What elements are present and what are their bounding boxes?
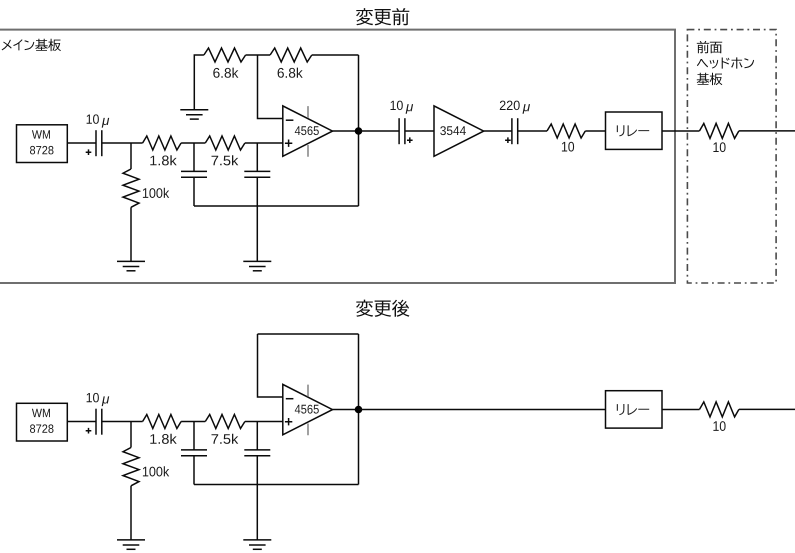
resistor R3 7.5k (205, 136, 245, 150)
op-amp U5 4565 (283, 384, 333, 435)
feedback drop wire (top rail to output node to lower rail) (358, 55, 360, 206)
DAC IC U1 WM8728 box (17, 125, 68, 163)
output node dot (355, 127, 363, 135)
value label 7.5k for R3 (212, 155, 239, 165)
DAC IC U4 WM8728 box (17, 403, 68, 441)
resistor R10 7.5k (205, 415, 245, 429)
relay K2 box (リレー) (606, 391, 663, 428)
title: 変更前 (before change) (356, 8, 409, 25)
wire node B down to C2 (193, 143, 195, 171)
buffer U3 3544 (434, 106, 484, 156)
op-amp U2 4565 (283, 106, 333, 157)
wire R4 to node D to R5 (246, 54, 271, 56)
value label 100k for R8 (143, 466, 169, 476)
feedback drop wire (loop to output node to lower rail) (358, 334, 360, 485)
wire R6 to relay K1 (585, 130, 605, 132)
wire C6 to node E to R9 (102, 421, 143, 423)
ground below R4 riser (180, 110, 208, 119)
resistor R6 10 (547, 124, 585, 138)
wire C2 bottom to feedback rail (193, 177, 195, 206)
wire R1 to node B to R3 (181, 142, 205, 144)
wire R2 bottom to ground (130, 207, 132, 261)
feedback rail wire (C7 to output node) (194, 484, 359, 486)
wire R11 to right edge (739, 408, 795, 410)
wire R9 to node F to R10 (181, 421, 205, 423)
capacitor C6 10u (polarized) (86, 409, 102, 435)
value label 10u for C6 (87, 393, 110, 406)
capacitor C8 (filter) (244, 450, 270, 456)
label: 基板 (board) (697, 73, 723, 85)
ground below C8 (243, 540, 271, 549)
value label 7.5k for R10 (212, 434, 239, 444)
label: ヘッドホン (headphone) (697, 57, 754, 68)
wire R7 to right edge (739, 130, 795, 132)
wire U5 - input to feedback loop (258, 334, 283, 397)
value label 10 for R6 (562, 142, 574, 152)
wire R5 to feedback drop (312, 54, 359, 56)
value label 6.8k for R5 (278, 68, 303, 78)
capacitor C1 10u (polarized) (86, 130, 102, 156)
wire node to relay K2 (359, 409, 606, 411)
capacitor C4 10u (polarized) (399, 118, 413, 144)
wire ground riser to R4 (194, 55, 204, 110)
label: 前面 (front) (697, 41, 722, 53)
value label 10u for C1 (87, 114, 110, 127)
wire U3 out to C5 (484, 130, 512, 132)
value label 100k for R2 (143, 188, 169, 198)
title: 変更後 (after change) (356, 300, 409, 317)
value label 1.8k for R9 (150, 434, 176, 444)
value label 220u for C5 (500, 101, 530, 114)
resistor R2 100k (vertical) (123, 169, 139, 207)
wire R10 to op-amp U5 + input (node G) (245, 421, 283, 423)
resistor R11 10 (700, 402, 739, 417)
wire U5 output to node (333, 409, 359, 411)
resistor R9 1.8k (143, 415, 182, 429)
value label 10u for C4 (391, 101, 414, 114)
value label 1.8k for R1 (150, 155, 176, 165)
value label 10 for R11 (713, 421, 725, 431)
main board outline box (メイン基板) (0, 30, 675, 283)
wire relay K2 to R11 (662, 409, 700, 411)
wire node A down to R2 (130, 143, 132, 169)
capacitor C3 (filter) (244, 171, 270, 177)
label: メイン基板 (main board) (2, 39, 61, 51)
wire node F down to C7 (193, 422, 195, 450)
feedback loop top wire (258, 333, 359, 335)
capacitor C2 (filter) (181, 171, 207, 177)
wire node G down to C8 (256, 422, 258, 450)
capacitor C5 220u (polarized) (505, 118, 518, 144)
resistor R5 6.8k (270, 48, 312, 62)
wire C3 bottom to ground (256, 177, 258, 261)
wire node D down to U2 - input (258, 55, 283, 119)
wire C8 bottom to ground (256, 456, 258, 540)
value label 6.8k for R4 (213, 68, 238, 78)
wire relay K1 to R7 (into headphone board) (662, 130, 700, 132)
ground below R8 (117, 540, 145, 549)
wire node to C4 (359, 130, 400, 132)
value label 10 for R7 (713, 142, 725, 152)
resistor R8 100k (vertical) (123, 448, 139, 486)
wire C1 to node A (R2 top) to R1 (102, 142, 143, 144)
ground below R2 (117, 261, 145, 270)
wire U1 output to C1 (67, 142, 96, 144)
wire U2 output to node (333, 130, 359, 132)
output node dot (355, 406, 363, 414)
ground below C3 (243, 261, 271, 270)
wire node E down to R8 (130, 422, 132, 448)
capacitor C7 (filter) (181, 450, 207, 456)
relay K1 box (リレー) (606, 112, 663, 149)
resistor R1 1.8k (143, 136, 182, 150)
wire C5 to R6 (518, 130, 547, 132)
feedback rail wire (C2 to output node) (194, 205, 359, 207)
resistor R7 10 (700, 123, 739, 138)
wire R8 bottom to ground (130, 486, 132, 540)
wire U4 output to C6 (67, 421, 96, 423)
resistor R4 6.8k (204, 48, 246, 62)
wire C7 bottom to feedback rail (193, 456, 195, 485)
front headphone board dash-dot box (687, 30, 776, 283)
wire node C down to C3 (256, 143, 258, 171)
wire R3 to op-amp U2 + input (node C) (245, 142, 283, 144)
wire C4 to U3 (405, 130, 434, 132)
